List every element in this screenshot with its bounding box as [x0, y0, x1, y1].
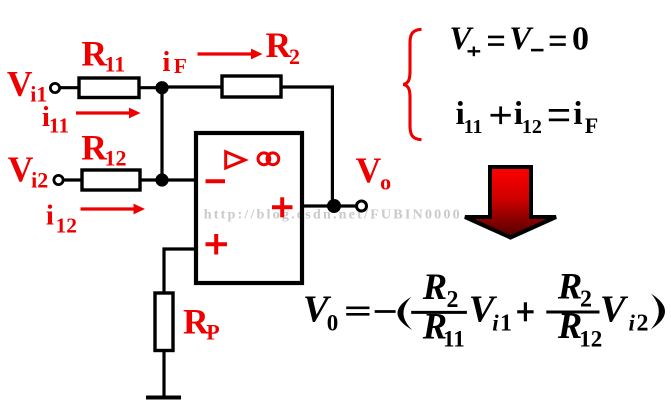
svg-text:R: R: [422, 266, 447, 307]
label i12: [46, 200, 77, 238]
brace: [403, 29, 421, 139]
resistor R12: [82, 170, 140, 190]
svg-text:F: F: [585, 113, 598, 138]
op-amp output plus label: [272, 197, 293, 217]
svg-text:R: R: [183, 301, 209, 341]
label RP: [183, 301, 220, 344]
terminal Vi2: [54, 175, 63, 184]
op-amp noninverting input plus label: [206, 234, 228, 255]
node output junction: [327, 199, 341, 213]
svg-text:2: 2: [637, 311, 649, 337]
wire op-amp output: [302, 204, 357, 207]
svg-text:o: o: [380, 169, 391, 194]
svg-text:i: i: [492, 311, 499, 336]
node inverting junction: [155, 173, 168, 186]
svg-text:P: P: [206, 319, 219, 344]
svg-text:11: 11: [443, 327, 465, 352]
svg-text:12: 12: [105, 146, 127, 171]
wire Vi1 lead: [59, 86, 80, 89]
big red arrow: [465, 167, 556, 238]
final equation V0 = -(R2/R11 Vi1 + R2/R12 Vi2): [303, 266, 665, 352]
svg-text:i: i: [573, 96, 582, 132]
svg-text:12: 12: [522, 116, 542, 138]
wire Vi2 lead: [62, 178, 83, 181]
op-amp inverting input minus label: [206, 179, 226, 183]
svg-text:12: 12: [579, 327, 602, 352]
svg-text:i2: i2: [31, 168, 48, 193]
label Vi2: [8, 149, 48, 193]
svg-text:R: R: [557, 266, 582, 307]
resistor R2: [222, 76, 281, 97]
label Vo: [356, 150, 392, 194]
svg-text:R: R: [81, 34, 107, 74]
svg-text:V: V: [509, 21, 534, 57]
svg-text:2: 2: [289, 44, 300, 69]
label i11: [42, 101, 69, 138]
ground: [146, 396, 181, 400]
svg-text:1: 1: [500, 311, 512, 337]
wire RP to ground: [162, 350, 165, 398]
svg-text:V: V: [8, 149, 34, 189]
wire R12 to node 2: [139, 178, 163, 181]
op-amp infinity symbol: [258, 153, 279, 165]
op-amp gain triangle: [226, 152, 245, 168]
label iF: [162, 46, 187, 78]
svg-text:11: 11: [105, 52, 126, 77]
equation V+ = V- = 0: [449, 21, 589, 58]
wire node iF to R2: [161, 85, 223, 88]
wire noninverting input to RP: [164, 249, 196, 294]
svg-text:0: 0: [327, 311, 339, 336]
node iF junction: [155, 81, 168, 94]
wire R11 to node iF: [138, 86, 163, 89]
svg-text:11: 11: [464, 116, 483, 138]
label R2: [266, 25, 301, 69]
wire node 2 to op-amp inverting input: [161, 178, 196, 181]
current arrow i12: [81, 204, 146, 215]
terminal Vo: [357, 201, 367, 211]
svg-text:V: V: [356, 150, 382, 190]
svg-text:2: 2: [447, 287, 459, 313]
svg-text:i: i: [46, 200, 54, 232]
svg-text:0: 0: [572, 21, 589, 58]
svg-text:V: V: [7, 64, 33, 104]
svg-text:V: V: [600, 289, 629, 331]
terminal Vi1: [50, 83, 59, 92]
resistor RP: [155, 293, 173, 351]
svg-text:i: i: [162, 46, 170, 78]
svg-text:11: 11: [49, 114, 69, 138]
resistor R11: [79, 78, 139, 98]
current arrow iF: [198, 49, 263, 60]
wire R2 to output node: [280, 87, 334, 206]
wire node iF down to node 2: [160, 87, 163, 181]
current arrow i11: [76, 108, 141, 119]
svg-text:12: 12: [56, 214, 78, 238]
label R12: [81, 128, 126, 171]
label R11: [81, 34, 125, 77]
svg-text:i: i: [629, 311, 636, 336]
equation i11 + i12 = iF: [456, 96, 599, 138]
svg-text:F: F: [174, 54, 187, 78]
label Vi1: [7, 64, 47, 107]
op-amp U1 body: [196, 133, 302, 283]
svg-text:R: R: [266, 25, 292, 65]
watermark: [204, 207, 460, 223]
svg-text:R: R: [81, 128, 107, 168]
